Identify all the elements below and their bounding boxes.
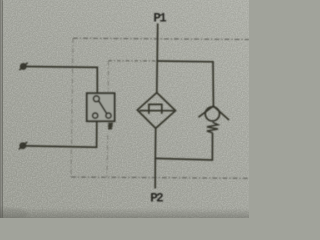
pressure switch contact arm — [99, 101, 107, 114]
enclosure dashed boundary: bottom edge — [71, 177, 249, 178]
wire filter outlet to P2 — [154, 128, 157, 188]
svg-text:P1: P1 — [153, 11, 166, 25]
pressure switch contact (bottom-right) — [106, 113, 111, 118]
wire branch from check valve (bottom) — [155, 133, 212, 160]
pressure switch contact pivot (top-left) — [94, 96, 100, 102]
scan artifact: bottom-left corner shade — [0, 207, 28, 221]
pressure switch spring — [108, 123, 113, 128]
terminal slash (bottom) — [19, 142, 27, 149]
wire branch to check valve (top) — [157, 61, 213, 106]
filter element line — [140, 110, 174, 112]
enclosure dashed boundary: top edge — [73, 38, 249, 39]
inner dashed boundary: vertical upper part — [107, 61, 109, 92]
inner dashed boundary: vertical lower part — [106, 135, 109, 177]
svg-text:P2: P2 — [150, 192, 163, 206]
wire from pressure switch to bottom terminal — [26, 121, 97, 147]
wire from top terminal to pressure switch — [27, 67, 98, 94]
check valve V1 spring — [207, 122, 218, 133]
filter element staple — [149, 104, 162, 114]
pressure switch contact (bottom-left) — [93, 113, 98, 118]
pressure switch S1 body — [87, 93, 115, 121]
page background — [0, 0, 249, 218]
enclosure dashed boundary: left edge — [71, 38, 73, 177]
filter F1 diamond — [137, 93, 175, 129]
scan artifact: bottom shadow — [0, 208, 249, 218]
terminal slash (top) — [19, 63, 27, 70]
inner dashed boundary: horizontal — [108, 60, 157, 62]
scan artifact: left edge strip — [0, 0, 2, 218]
electrical terminal (bottom) — [20, 143, 25, 148]
check valve V1 seat — [199, 106, 230, 120]
electrical terminal (top) — [21, 64, 26, 69]
check valve V1 poppet ball — [205, 107, 219, 121]
node P1 wire (inlet vertical) — [156, 24, 159, 93]
